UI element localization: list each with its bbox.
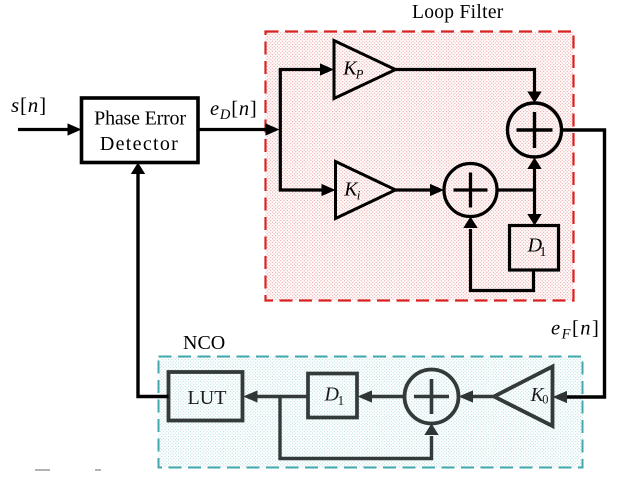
LUT box [169, 372, 243, 421]
amplifier Kp triangle [334, 41, 396, 99]
wire: D1 feedback to middle adder [471, 229, 534, 291]
amplifier Ki triangle [336, 162, 396, 219]
delay D1 (NCO) [308, 374, 357, 418]
arrowhead into NCO adder [459, 390, 474, 402]
delay D1 (loop filter) [510, 226, 559, 271]
adder (middle, loop filter) [444, 164, 497, 217]
arrowhead up into NCO adder bottom [424, 424, 438, 436]
loop filter region [266, 32, 574, 301]
wire: LUT output feedback to detector [138, 174, 169, 397]
svg-text:i: i [357, 187, 361, 202]
wire: junction down into D1 [533, 189, 536, 215]
amplifier K0 triangle (NCO) [494, 367, 553, 427]
arrowhead into Ki [322, 184, 336, 196]
wire: NCO adder output to D1 [371, 395, 405, 398]
svg-text:1: 1 [338, 393, 345, 408]
arrowhead into NCO D1 [358, 390, 373, 402]
wire: K0 output to NCO adder [472, 395, 494, 398]
cropped caption marks bottom left [35, 469, 101, 471]
arrowhead into middle adder [430, 184, 444, 196]
svg-text:P: P [355, 67, 364, 81]
NCO region [159, 357, 583, 468]
wire: eD from detector to loop filter [198, 128, 267, 131]
svg-text:Phase Error: Phase Error [94, 108, 186, 130]
svg-text:1: 1 [540, 244, 547, 259]
adder (NCO) [405, 370, 459, 424]
arrowhead down into D1 top [527, 214, 541, 226]
wire: middle adder output to junction [497, 188, 535, 191]
wire: to Ki amplifier [279, 188, 323, 191]
arrowhead up into detector bottom [131, 163, 145, 175]
wire: Kp output to top adder [396, 70, 535, 93]
adder (top, loop filter) [508, 103, 562, 157]
svg-text:eD[n]: eD[n] [210, 98, 258, 123]
svg-text:NCO: NCO [183, 332, 225, 354]
svg-text:Loop Filter: Loop Filter [412, 2, 504, 23]
wire: input s[n] [18, 128, 69, 131]
wire: branch vertical at input node [279, 70, 282, 191]
wire: NCO D1 output to LUT [257, 395, 308, 398]
svg-text:eF[n]: eF[n] [551, 318, 600, 343]
arrowhead into Kp [320, 63, 334, 75]
arrowhead up into top adder bottom [527, 158, 541, 170]
arrowhead into top adder [527, 92, 541, 104]
wire: to Kp amplifier [279, 68, 322, 71]
arrowhead into LUT [243, 390, 258, 402]
arrowhead up into middle adder bottom [463, 217, 477, 229]
wire: Ki output to middle adder [396, 188, 432, 191]
wire: top adder output, down to NCO [562, 130, 605, 397]
arrowhead into phase error detector [68, 123, 82, 135]
phase error detector box [82, 98, 199, 163]
svg-text:LUT: LUT [188, 387, 227, 409]
wire: junction up into top adder [533, 169, 536, 192]
svg-text:s[n]: s[n] [11, 93, 47, 117]
svg-text:0: 0 [542, 393, 548, 407]
wire: NCO feedback from node to adder bottom [280, 397, 432, 459]
svg-text:Detector: Detector [100, 133, 179, 155]
arrowhead at loop filter input node [266, 123, 280, 135]
arrowhead into K0 [553, 391, 568, 403]
